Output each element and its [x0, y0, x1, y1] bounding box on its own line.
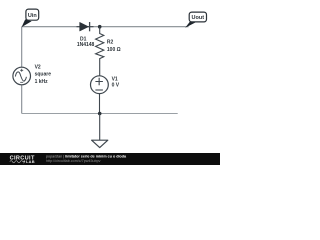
- wire top rail: [22, 26, 189, 28]
- svg-text:100 Ω: 100 Ω: [107, 47, 121, 53]
- svg-text:popa/stan | limitator serie de: popa/stan | limitator serie de minim cu …: [46, 154, 127, 158]
- svg-text:Uout: Uout: [192, 15, 205, 21]
- footer bar: [0, 153, 220, 165]
- diode D1: [77, 22, 95, 48]
- svg-text:1N4148: 1N4148: [77, 42, 95, 48]
- voltage source V1: [91, 76, 120, 114]
- ground: [92, 114, 108, 148]
- node A junction top: [98, 25, 102, 29]
- node Uout callout: [185, 12, 206, 28]
- svg-text:Uin: Uin: [28, 13, 38, 19]
- svg-text:1 kHz: 1 kHz: [35, 79, 49, 85]
- footer text: [46, 154, 127, 162]
- svg-text:V2: V2: [35, 65, 41, 71]
- node Uin callout: [22, 9, 39, 27]
- wire left vertical: [21, 27, 23, 114]
- voltage source V2: [13, 65, 51, 85]
- svg-text:square: square: [35, 72, 52, 78]
- node B junction bottom: [98, 112, 102, 116]
- svg-text:LAB: LAB: [26, 159, 35, 164]
- svg-text:0 V: 0 V: [112, 83, 120, 89]
- resistor R2: [96, 27, 121, 76]
- wire bottom rail: [22, 113, 178, 115]
- svg-text:http://circuitlab.com/c/7pw45u: http://circuitlab.com/c/7pw45ubpv: [46, 159, 101, 163]
- footer logo CircuitLab: [10, 156, 35, 165]
- svg-text:R2: R2: [107, 40, 114, 46]
